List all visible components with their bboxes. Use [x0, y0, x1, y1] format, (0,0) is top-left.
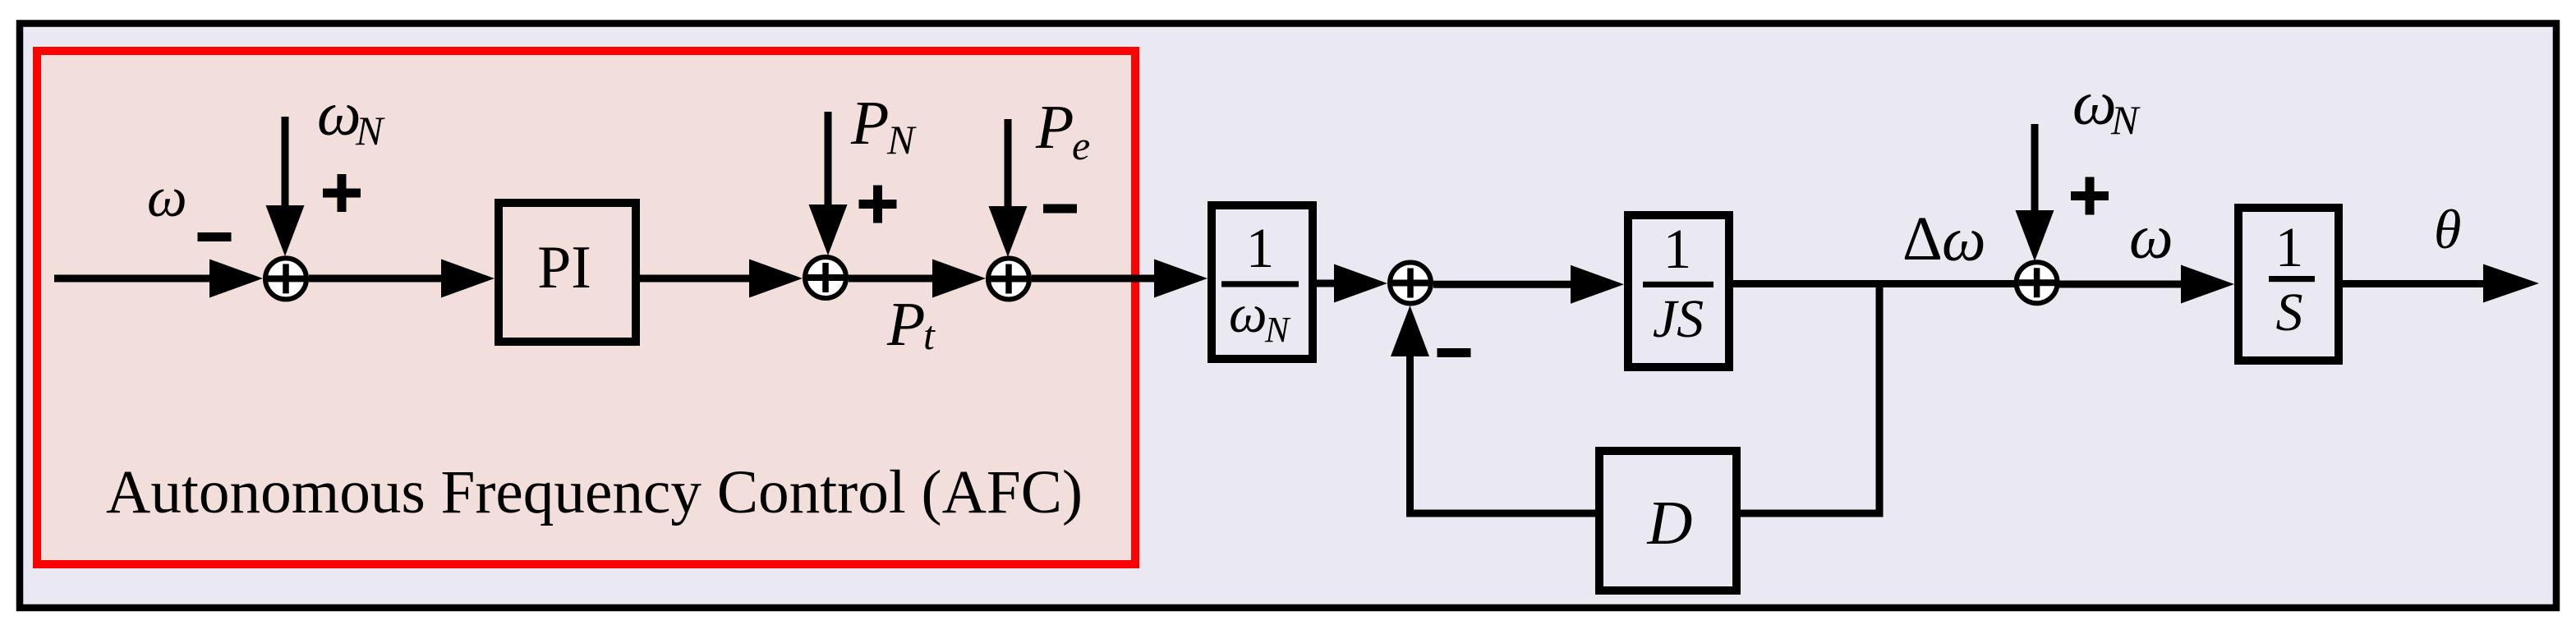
wire: P_N drop to S2: [825, 112, 832, 209]
arrowhead into S4: [1334, 264, 1387, 303]
svg-text:N: N: [1264, 310, 1291, 350]
arrowhead down into S5: [2016, 210, 2054, 261]
arrowhead up into S4: [1391, 306, 1429, 356]
wire: S3 out crossing AFC border: [1032, 275, 1166, 283]
AFC region box: [37, 51, 1135, 564]
wire: D output to feedback riser: [1410, 510, 1596, 517]
wire: PI to S2: [640, 275, 764, 283]
svg-text:ω: ω: [147, 166, 187, 228]
svg-text:ω: ω: [1942, 205, 1986, 274]
wire: feedback riser up to S4: [1406, 345, 1414, 517]
arrowhead into S3: [932, 260, 986, 298]
svg-text:P: P: [886, 290, 925, 359]
arrowhead into 1/S: [2181, 265, 2234, 304]
wire: S5 to 1/S: [2059, 281, 2193, 288]
wire: 1/JS output to S5: [1733, 280, 2016, 287]
summing junction S4: [1390, 263, 1431, 304]
wire: junction drop from 1/JS output: [1876, 284, 1884, 517]
wire: S1 to PI: [309, 275, 452, 283]
summing junction S1: [265, 258, 306, 299]
svg-text:D: D: [1647, 489, 1693, 558]
svg-text:ω: ω: [1229, 284, 1267, 344]
arrowhead down into S3: [989, 206, 1028, 257]
svg-text:Autonomous Frequency Control (: Autonomous Frequency Control (AFC): [106, 458, 1083, 526]
wire: S2 to S3: [849, 275, 945, 283]
svg-text:N: N: [886, 117, 917, 163]
arrowhead into PI: [441, 260, 494, 298]
svg-text:N: N: [2110, 97, 2141, 143]
summing junction S2: [805, 257, 846, 298]
svg-text:ω: ω: [2072, 69, 2117, 138]
arrowhead down into S1: [266, 205, 305, 256]
svg-text:t: t: [923, 312, 936, 358]
arrowhead output theta: [2483, 264, 2539, 303]
wire: feedback to D input: [1741, 510, 1884, 517]
svg-text:1: 1: [1246, 217, 1275, 279]
minus sign at S1 input: [198, 232, 232, 241]
svg-text:PI: PI: [537, 234, 591, 301]
minus sign at S3 top input: [1043, 205, 1077, 214]
svg-text:N: N: [355, 108, 385, 154]
svg-text:P: P: [850, 89, 889, 158]
block 1/omega_N: [1212, 205, 1313, 359]
block D: [1599, 451, 1736, 591]
svg-text:JS: JS: [1653, 289, 1704, 349]
wire: 1/wN to S4: [1317, 280, 1347, 287]
svg-text:Δ: Δ: [1902, 205, 1943, 273]
arrowhead into S2: [749, 260, 803, 298]
wire: P_e drop to S3: [1005, 119, 1012, 212]
svg-text:S: S: [2276, 283, 2303, 342]
plus sign at S1 top input: [323, 174, 361, 212]
svg-text:e: e: [1072, 122, 1090, 168]
block 1/JS: [1628, 215, 1729, 367]
plus sign at S2 top input: [859, 186, 897, 223]
summing junction S3: [988, 259, 1029, 300]
block 1/S: [2238, 208, 2339, 361]
arrowhead into block 1/wN: [1154, 260, 1207, 298]
wire: omega input: [54, 275, 238, 283]
wire: 1/S to output: [2343, 280, 2493, 287]
svg-text:1: 1: [1663, 218, 1692, 280]
svg-text:P: P: [1035, 93, 1074, 162]
wire: omega_N drop to S1: [282, 117, 289, 214]
arrowhead into 1/JS: [1571, 265, 1624, 304]
svg-text:1: 1: [2275, 216, 2304, 278]
svg-text:θ: θ: [2434, 198, 2461, 260]
minus sign at S4 feedback input: [1437, 348, 1471, 357]
svg-text:ω: ω: [317, 80, 361, 149]
wire: S4 to 1/JS: [1433, 281, 1577, 288]
arrowhead down into S2: [809, 205, 848, 255]
wire: omega_N drop to S5: [2031, 124, 2039, 218]
plus sign at S5 top input: [2071, 177, 2109, 215]
arrowhead into summing junction S1: [209, 260, 263, 298]
block PI: [499, 203, 636, 342]
summing junction S5: [2017, 262, 2058, 303]
svg-text:ω: ω: [2129, 203, 2173, 272]
